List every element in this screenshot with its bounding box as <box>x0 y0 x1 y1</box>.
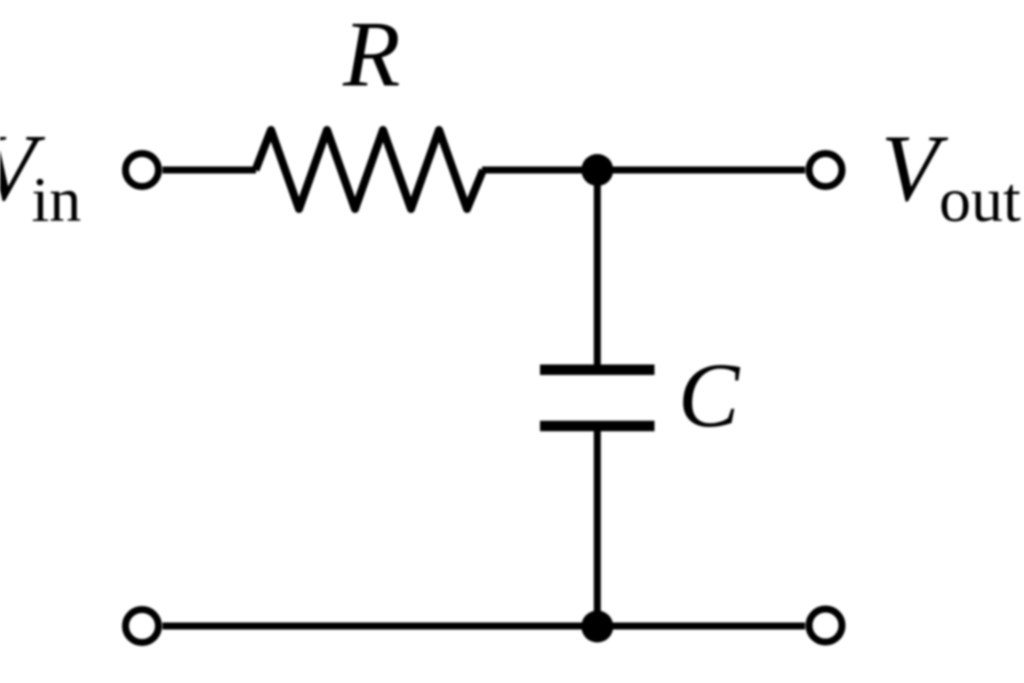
capacitor C top plate <box>540 365 655 376</box>
svg-text:in: in <box>32 164 82 235</box>
wire bottom left <box>163 623 598 630</box>
capacitor C bottom plate <box>540 421 655 432</box>
node A junction dot <box>581 154 613 186</box>
svg-text:C: C <box>678 344 741 446</box>
node B junction dot <box>581 611 613 643</box>
wire capacitor to node B <box>594 431 601 626</box>
terminal output top (Vout) <box>809 154 842 187</box>
svg-text:out: out <box>939 164 1021 235</box>
svg-text:R: R <box>342 2 400 106</box>
terminal input bottom <box>126 610 159 643</box>
terminal output bottom <box>809 609 842 642</box>
wire input to resistor <box>163 167 257 174</box>
wire node A down to capacitor <box>594 170 601 365</box>
wire bottom right <box>597 623 805 630</box>
terminal input top (Vin) <box>126 154 159 187</box>
wire resistor to node A <box>482 167 597 174</box>
resistor R <box>256 130 484 209</box>
wire node A to output terminal <box>597 167 805 174</box>
